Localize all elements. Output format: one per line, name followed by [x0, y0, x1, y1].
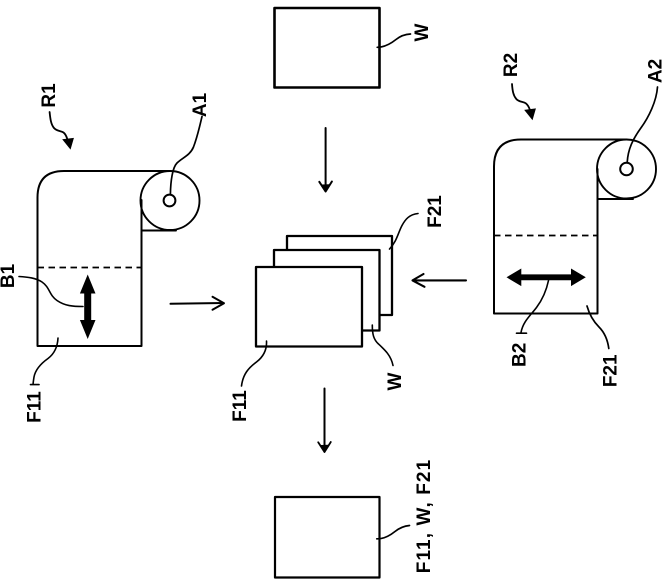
- svg-text:R2: R2: [501, 53, 522, 77]
- svg-text:F11: F11: [25, 391, 46, 423]
- svg-text:F11: F11: [230, 390, 251, 422]
- svg-text:A2: A2: [646, 59, 663, 83]
- svg-text:F21: F21: [601, 354, 622, 387]
- svg-text:F21: F21: [425, 195, 446, 228]
- svg-text:F11, W, F21: F11, W, F21: [414, 459, 435, 574]
- svg-text:W: W: [412, 23, 433, 41]
- svg-text:W: W: [385, 372, 406, 390]
- svg-text:B2: B2: [510, 343, 531, 367]
- svg-text:R1: R1: [39, 83, 60, 108]
- svg-text:A1: A1: [190, 92, 211, 117]
- svg-text:B1: B1: [0, 263, 19, 288]
